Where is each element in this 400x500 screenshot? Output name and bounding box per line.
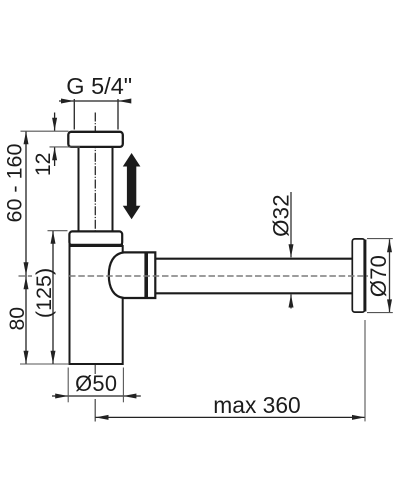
extension lines body bottom corners [68,368,123,403]
extension line flange bottom [50,146,81,148]
label G 5/4" [66,73,132,99]
svg-text:Ø50: Ø50 [75,371,117,396]
label O32 [268,194,293,237]
dimension O32 [289,192,294,309]
adjustability double arrow [123,153,141,219]
svg-text:G 5/4": G 5/4" [66,73,132,99]
label O70 [366,255,391,297]
svg-text:80: 80 [5,307,29,331]
horizontal centerline [19,275,369,277]
outlet nut band [144,252,148,298]
svg-text:Ø32: Ø32 [268,194,293,237]
svg-text:max 360: max 360 [213,392,300,418]
extension line flange top [21,130,69,132]
trap body [70,246,123,364]
dimension line G 5/4 [59,99,131,104]
outlet pipe [156,259,352,294]
extension line body bottom [20,363,69,365]
dimension 12 [52,113,57,167]
svg-text:(125): (125) [32,268,56,318]
vertical centerline [94,113,96,365]
dimension O70 [387,239,392,312]
outlet dome [109,252,156,298]
dimension O50 [52,394,141,399]
body nut [69,231,124,245]
svg-text:12: 12 [32,153,55,177]
centerline extension below body [94,365,96,422]
extension line body nut top [48,230,68,232]
label (125) [32,268,56,318]
dimension (125) [51,231,56,364]
svg-text:60 - 160: 60 - 160 [2,144,26,223]
label 60 - 160 [2,144,26,223]
wall flange [352,239,365,312]
extension lines wall flange [367,239,393,313]
extension line wall flange bottom [364,320,366,421]
extension lines G 5/4 [74,99,118,130]
dimension max 360 [96,415,366,420]
label 80 [5,307,29,331]
label O50 [75,371,117,396]
inlet pipe [79,147,113,231]
label 12 [32,153,55,177]
dimension 60 - 160 and 80 vertical line [24,131,29,363]
label max 360 [213,392,300,418]
top flange nut [68,132,123,147]
svg-text:Ø70: Ø70 [366,255,391,297]
